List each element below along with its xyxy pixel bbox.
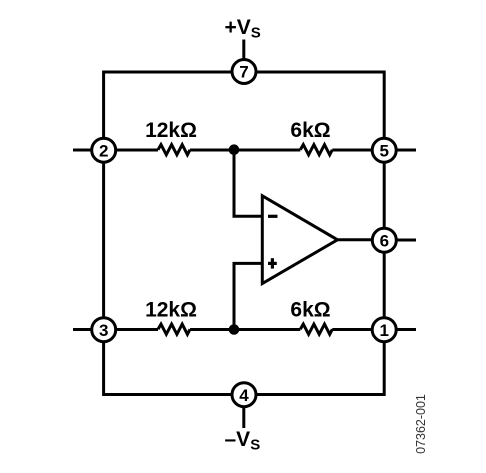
svg-text:12kΩ: 12kΩ [145,299,197,322]
svg-text:2: 2 [99,141,108,160]
wire row2 segment R2 to pin5 [332,149,384,152]
svg-text:7: 7 [239,63,248,82]
wire +Vs stub to pin 7 [242,40,245,72]
wire row2 segment pin2 to R1 [104,149,158,152]
wire node B up to noninverting input [234,263,262,329]
wire node A down to inverting input [234,150,262,216]
pin 1 circle [372,318,396,342]
pin 4 circle [232,383,256,407]
svg-text:07362-001: 07362-001 [414,394,428,454]
node B junction dot [229,324,240,335]
wire row3 segment R4 to pin1 [332,328,384,331]
wire pin1 right stub [384,328,416,331]
resistor R 12k top zigzag [158,145,190,155]
wire pin5 right stub [384,149,416,152]
wire row3 segment pin3 to R3 [104,328,158,331]
pin 5 circle [372,138,396,162]
wire row2 segment R1 to R2 [190,149,300,152]
svg-text:6kΩ: 6kΩ [290,119,330,142]
resistor R 12k bottom zigzag [158,324,190,334]
wire right rail [383,71,386,397]
wire -Vs stub from pin 4 [242,395,245,428]
node A junction dot [229,144,240,155]
wire pin3 left stub [73,328,104,331]
resistor R 6k bottom zigzag [300,324,332,334]
svg-text:6: 6 [380,231,389,250]
svg-text:12kΩ: 12kΩ [145,119,197,142]
pin 3 circle [92,318,116,342]
svg-text:5: 5 [379,141,388,160]
wire pin2 left stub [73,149,104,152]
pin 2 circle [92,138,116,162]
resistor R 6k top zigzag [300,145,332,155]
pin 6 circle [372,228,396,252]
svg-text:–VS: –VS [225,428,261,454]
wire bottom rail [104,393,385,396]
svg-text:3: 3 [99,321,108,340]
wire pin6 right stub [384,239,416,242]
op-amp U1 triangle [262,196,337,284]
wire top rail [104,71,385,74]
svg-text:6kΩ: 6kΩ [290,299,330,322]
wire left rail [102,71,105,397]
svg-text:4: 4 [239,386,249,405]
svg-text:1: 1 [379,321,388,340]
wire op-amp output to pin 6 [338,238,385,241]
svg-text:+VS: +VS [225,16,261,42]
wire row3 segment R3 to R4 [190,328,300,331]
op-amp inverting input minus sign [268,215,278,218]
pin 7 circle [232,60,256,84]
op-amp noninverting input plus sign [268,262,277,265]
